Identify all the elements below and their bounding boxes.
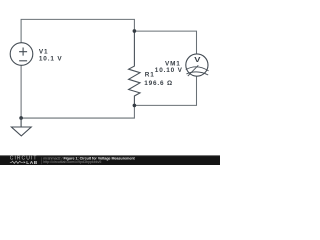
- wire voltmeter bottom to node B: [134, 76, 196, 105]
- resistor R1: [129, 31, 140, 105]
- wire V1- down to ground node: [20, 65, 22, 118]
- junction node B dot: [133, 104, 137, 108]
- svg-text:196.6 Ω: 196.6 Ω: [144, 80, 173, 87]
- wire top net: V1+ to node A: [21, 19, 134, 42]
- footer logo/caption separator: [40, 157, 42, 164]
- svg-text:http://circuitlab.com/c/9pd3bp: http://circuitlab.com/c/9pd3bppkbkv5: [43, 160, 101, 164]
- meter scale arc upper: [186, 67, 209, 71]
- svg-text:V: V: [194, 55, 201, 64]
- voltmeter V letter: [194, 55, 201, 64]
- voltmeter VM1: [186, 54, 208, 76]
- wire node A to voltmeter top: [134, 31, 196, 54]
- junction ground node dot: [19, 116, 23, 120]
- wire bottom net: ground node to resistor bottom: [21, 105, 134, 118]
- meter needle: [188, 65, 199, 76]
- junction node A dot: [133, 29, 137, 33]
- svg-text:LAB: LAB: [26, 160, 38, 165]
- svg-text:V1: V1: [39, 49, 49, 56]
- svg-text:R1: R1: [145, 72, 155, 79]
- svg-text:10.10 V: 10.10 V: [155, 67, 183, 74]
- meter scale arc lower: [186, 72, 208, 75]
- CircuitLab logo zigzag: [10, 161, 23, 163]
- CircuitLab logo arrow: [24, 161, 26, 163]
- voltage source V1: [10, 43, 33, 66]
- ground symbol: [11, 118, 31, 136]
- footer bar: [0, 156, 220, 165]
- svg-text:10.1 V: 10.1 V: [39, 56, 63, 63]
